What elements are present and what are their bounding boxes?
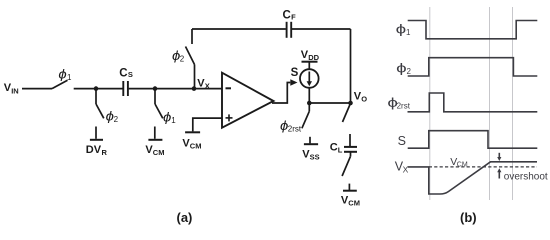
label phi1 (input switch)	[58, 66, 67, 81]
svg-text:S: S	[398, 134, 406, 148]
feedback top wire (left of CF)	[192, 28, 286, 30]
switch phi2 (to DVR) stub	[95, 89, 97, 104]
switch phi1 (series input switch) arm	[52, 80, 68, 88]
capacitor CL plates	[344, 146, 357, 148]
svg-text:1: 1	[406, 28, 411, 37]
waveform phi2	[408, 58, 538, 76]
svg-text:S: S	[128, 70, 133, 79]
svg-text:2: 2	[114, 115, 119, 124]
switch phi2rst arm	[302, 111, 309, 128]
overshoot up arrow	[498, 172, 500, 179]
waveform VX solid trace	[408, 162, 537, 194]
svg-text:ϕ: ϕ	[396, 22, 407, 36]
timing grid guide lines	[430, 7, 513, 200]
label phi2rst	[280, 118, 289, 133]
svg-text:(a): (a)	[177, 210, 193, 225]
terminal VCM (below CL) stub and bar	[348, 184, 350, 190]
switch phi2rst stub	[308, 103, 310, 111]
terminal DVR (stub and bar)	[95, 127, 97, 139]
node A junction dot	[94, 86, 99, 91]
label phi2rst (waveform)	[387, 96, 398, 110]
op-amp U1 triangle	[222, 73, 274, 128]
waveform phi2rst	[408, 93, 538, 112]
waveform phi1	[408, 21, 538, 39]
svg-text:C: C	[283, 10, 291, 22]
svg-text:O: O	[361, 94, 367, 103]
current source internal arrow	[308, 72, 310, 83]
capacitor CL bottom stub	[350, 152, 352, 157]
svg-text:ϕ: ϕ	[396, 61, 407, 75]
plus input wire to VCM	[193, 118, 222, 131]
node VX junction dot	[192, 86, 197, 91]
VDD stub	[308, 62, 310, 69]
label phi2 (feedback switch)	[172, 48, 181, 63]
switch phi2 (feedback reset) arm	[186, 47, 195, 65]
label phi1 (waveform)	[396, 22, 407, 36]
svg-text:S: S	[291, 67, 299, 79]
current source I1 circle	[300, 69, 319, 88]
svg-text:CM: CM	[153, 148, 165, 157]
switch phi1 (to VCM) stub	[154, 89, 156, 104]
overshoot down arrow	[498, 153, 500, 158]
switch phi1 arm	[155, 104, 163, 118]
svg-text:overshoot: overshoot	[504, 171, 548, 182]
svg-text:2: 2	[407, 67, 412, 76]
svg-text:1: 1	[171, 116, 176, 125]
terminal VSS stub and bar	[309, 137, 311, 144]
svg-text:CM: CM	[348, 199, 360, 208]
switch S3 (CL to VCM) arm	[342, 156, 350, 176]
svg-text:SS: SS	[310, 152, 320, 161]
node VIN input wire	[22, 88, 52, 90]
svg-text:ϕ: ϕ	[58, 66, 67, 81]
switch phi2 (feedback reset) lower stub	[194, 65, 196, 89]
wire current source to output node	[308, 88, 310, 103]
svg-text:L: L	[338, 145, 343, 154]
svg-text:2rst: 2rst	[397, 101, 411, 110]
capacitor CL top stub	[349, 134, 351, 146]
capacitor CF plates	[286, 22, 288, 38]
capacitor CS plates	[122, 81, 124, 96]
svg-text:X: X	[205, 82, 210, 91]
svg-text:(b): (b)	[460, 210, 477, 225]
feedback right vertical wire down to VO	[350, 29, 352, 103]
svg-text:C: C	[119, 67, 127, 79]
waveform S	[408, 131, 538, 149]
switch S arrowhead	[290, 79, 297, 86]
wire from switch to op-amp minus input (left part)	[74, 88, 123, 90]
terminal VCM (stub and bar)	[154, 127, 156, 139]
svg-text:CM: CM	[190, 142, 202, 151]
terminal VCM (plus input) bar	[185, 131, 200, 133]
VDD rail bar	[302, 61, 318, 63]
label phi1 (VCM switch)	[163, 109, 172, 124]
svg-text:F: F	[291, 13, 296, 22]
node VO junction dot	[348, 101, 353, 106]
feedback top wire (right of CF)	[292, 28, 351, 30]
svg-text:2: 2	[180, 55, 185, 64]
waveform VX dashed VCM reference	[429, 166, 537, 168]
label phi2 (DVR switch)	[106, 108, 115, 123]
svg-text:DD: DD	[308, 53, 319, 62]
node B junction dot	[153, 86, 158, 91]
wire from CS to op-amp minus input	[129, 88, 222, 90]
svg-text:1: 1	[67, 73, 72, 82]
switch phi2 (feedback reset) top stub	[191, 29, 193, 44]
svg-text:CM: CM	[457, 162, 468, 169]
svg-text:DV: DV	[86, 144, 102, 156]
svg-text:ϕ: ϕ	[163, 109, 172, 124]
op-amp output wire	[272, 83, 290, 104]
switch S2 (VO to CL) arm	[343, 104, 351, 122]
op-amp minus sign	[226, 87, 232, 89]
svg-text:2rst: 2rst	[288, 124, 302, 133]
switch phi2 arm	[96, 104, 104, 118]
svg-text:IN: IN	[11, 87, 19, 96]
svg-text:R: R	[102, 148, 108, 157]
wire to VO node	[309, 102, 350, 104]
node below current source junction dot	[307, 101, 312, 106]
op-amp plus sign	[226, 117, 233, 119]
svg-text:C: C	[330, 141, 338, 153]
label phi2 (waveform)	[396, 61, 407, 75]
svg-text:X: X	[403, 165, 409, 175]
